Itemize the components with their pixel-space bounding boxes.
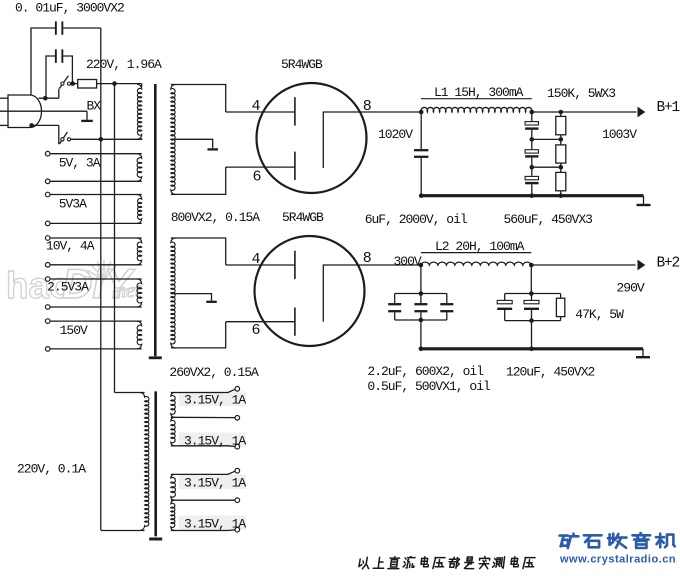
svg-text:10V, 4A: 10V, 4A [46,239,95,254]
svg-text:3.15V, 1A: 3.15V, 1A [184,433,246,448]
svg-text:3.15V, 1A: 3.15V, 1A [184,516,246,531]
svg-text:8: 8 [363,98,372,115]
svg-text:0.5uF, 500VX1, oil: 0.5uF, 500VX1, oil [367,379,491,394]
svg-text:3.15V, 1A: 3.15V, 1A [184,475,246,490]
svg-text:800VX2, 0.15A: 800VX2, 0.15A [171,210,261,225]
svg-text:150K, 5WX3: 150K, 5WX3 [547,86,615,101]
svg-text:3.15V, 1A: 3.15V, 1A [184,392,246,407]
svg-text:2.2uF, 600X2, oil: 2.2uF, 600X2, oil [367,364,484,379]
svg-text:120uF, 450VX2: 120uF, 450VX2 [506,365,595,380]
svg-text:4: 4 [252,98,261,115]
svg-text:6uF, 2000V, oil: 6uF, 2000V, oil [365,212,468,227]
svg-text:8: 8 [363,250,372,267]
svg-text:B+2: B+2 [657,256,680,272]
svg-text:290V: 290V [617,281,645,296]
svg-text:5R4WGB: 5R4WGB [282,210,324,225]
svg-text:L2 20H, 100mA: L2 20H, 100mA [435,239,525,254]
svg-text:560uF, 450VX3: 560uF, 450VX3 [504,212,593,227]
svg-text:1003V: 1003V [602,127,637,142]
svg-text:5V3A: 5V3A [59,197,87,212]
svg-text:150V: 150V [60,323,88,338]
svg-text:6: 6 [252,322,261,339]
svg-text:220V, 0.1A: 220V, 0.1A [17,462,86,477]
svg-text:5V, 3A: 5V, 3A [59,156,101,171]
svg-text:220V, 1.96A: 220V, 1.96A [86,57,162,72]
svg-text:6: 6 [253,169,262,186]
svg-text:BX: BX [87,99,102,114]
svg-text:47K, 5W: 47K, 5W [575,307,624,322]
svg-text:1020V: 1020V [378,127,413,142]
svg-text:0. 01uF, 3000VX2: 0. 01uF, 3000VX2 [15,1,124,16]
svg-text:www.crystalradio.cn: www.crystalradio.cn [559,554,676,566]
svg-text:260VX2, 0.15A: 260VX2, 0.15A [169,365,259,380]
svg-text:5R4WGB: 5R4WGB [281,57,323,72]
svg-text:L1 15H, 300mA: L1 15H, 300mA [434,85,524,100]
svg-text:2.5V3A: 2.5V3A [47,280,89,295]
svg-text:B+1: B+1 [657,100,680,116]
svg-text:4: 4 [252,251,261,268]
svg-text:300V: 300V [394,254,422,269]
